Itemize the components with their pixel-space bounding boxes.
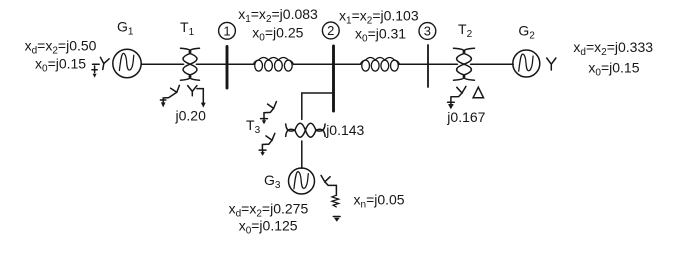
svg-text:3: 3 xyxy=(424,24,431,39)
svg-text:j0.167: j0.167 xyxy=(446,109,485,125)
svg-text:2: 2 xyxy=(327,23,334,38)
svg-text:1: 1 xyxy=(223,24,230,39)
svg-text:j0.20: j0.20 xyxy=(175,108,207,124)
svg-text:j0.143: j0.143 xyxy=(325,122,364,138)
